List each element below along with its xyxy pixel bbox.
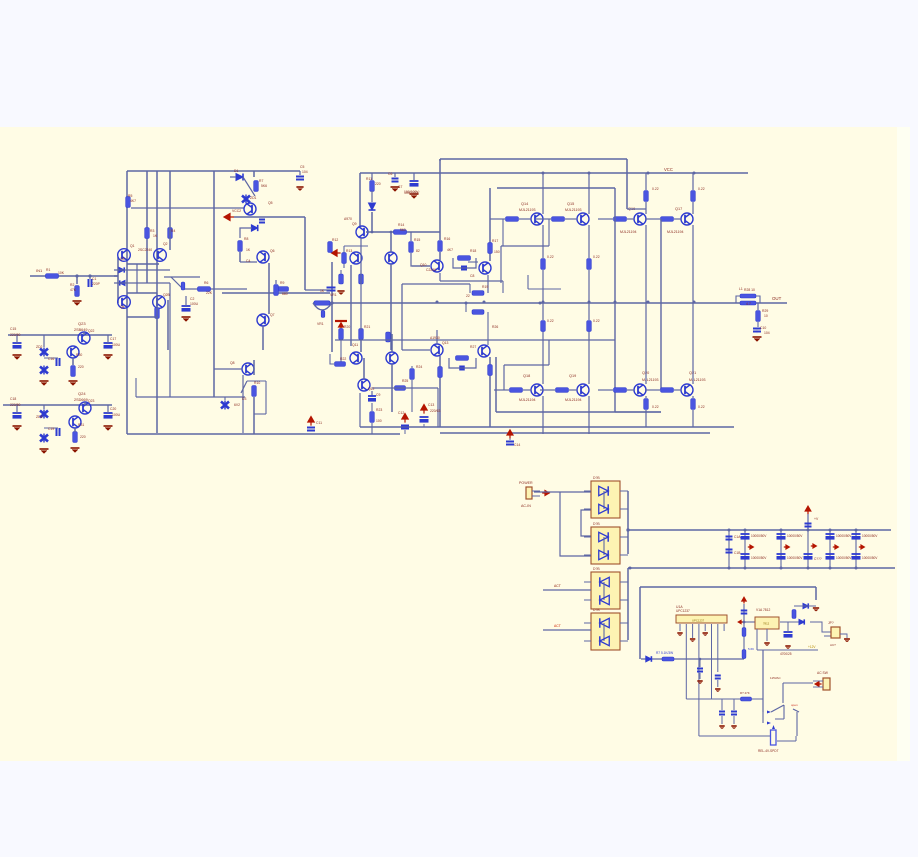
transistor Q11 [257,314,269,326]
svg-text:R24: R24 [416,365,422,369]
label amp108 C20 [110,407,116,411]
wire y246 piece [501,219,549,283]
wire Q29 emitter up [542,331,544,384]
wire lower drive rail link [495,357,497,412]
capacitor CB1b [726,550,733,553]
label amp96 C15 [10,327,16,331]
label amp31 Q8 [230,361,235,365]
svg-text:680: 680 [282,292,288,296]
wire bottom rail left [127,433,400,435]
wire Q27 emitter [645,225,647,302]
svg-text:220/63: 220/63 [430,409,440,413]
ground regA4 [104,355,113,360]
svg-text:VR1: VR1 [317,322,324,326]
svg-text:2SD669: 2SD669 [74,398,88,402]
label amp8 Q2 [163,242,168,246]
transistor Q9 vas top [244,203,256,215]
label JP2 [828,621,836,647]
capacitor CB3b [777,554,786,560]
ground C23 [697,673,702,684]
label amp22 ZD1 [250,196,257,200]
resistor R20 [370,403,375,434]
label amp34 6V2 [234,403,240,407]
svg-text:C9: C9 [376,393,380,397]
label amp53 4K7 [447,248,453,252]
label amp25 1K [246,248,251,252]
relay K1 coil pins [763,711,775,730]
label amp56 R18 [470,249,476,253]
svg-text:IN1: IN1 [36,268,43,273]
power arrow bl2 [402,414,408,423]
transistor Q16 bias2 [350,352,362,364]
diode D7 top [230,174,243,181]
ground regB4 [104,426,113,431]
label amp94 220/63 [430,409,440,413]
transistor Q8 regB [69,416,81,428]
svg-text:Q7: Q7 [270,313,275,317]
label amp14 C2 [190,297,194,301]
wire capcol 5 [829,530,831,568]
transistor Q29 output lower MJ21194 [531,384,543,396]
label amp112 R31 [78,423,84,427]
wire base feed 3 [598,218,634,220]
svg-text:0.22: 0.22 [593,319,600,323]
wire out tail [757,303,759,310]
label amp49 82 [416,249,420,253]
svg-text:5.6K: 5.6K [748,647,754,651]
label amp67 C9 [376,393,380,397]
svg-text:4K7: 4K7 [130,199,136,203]
svg-text:C18: C18 [10,397,16,401]
svg-text:R5: R5 [128,194,132,198]
wire Q30 collector [588,396,590,434]
svg-text:A1930: A1930 [430,336,440,340]
capacitor CB5a [826,534,835,540]
label amp98 ZD2 [36,345,43,349]
svg-text:R22: R22 [340,357,346,361]
wire diode branch [639,587,641,659]
capacitor C27 [731,699,737,715]
label amp48 R15 [414,238,420,242]
resistor R19 [330,354,346,366]
label CB1 [734,535,741,555]
label Q5 [74,321,88,332]
diode D1 cascode [114,267,170,272]
svg-text:R15: R15 [414,238,420,242]
wire drive rail lower [496,411,661,413]
svg-text:C1B: C1B [734,551,741,555]
wire vert mid [253,171,255,177]
diode D3 zener regA [40,335,48,357]
label amp111 220 [78,365,84,369]
label U2 [756,608,770,612]
resistor R36 [740,691,752,701]
svg-text:Q9: Q9 [352,222,357,226]
svg-text:220: 220 [80,435,86,439]
capacitor C22 p7 [715,676,721,679]
svg-text:D1: D1 [234,169,238,173]
transistor Q27 output upper NPN MJ21193 [634,213,646,225]
label amp62 VR1 [330,293,337,297]
wire vas vert1 [359,173,361,226]
bridge rectifier B3 [591,572,620,609]
resistor Re3 lower emitter [644,399,649,410]
resistor Rb4 upper base [661,217,674,222]
transistor Q20 drv2 [479,262,491,274]
wire lower base feed 2 [540,389,577,391]
svg-text:115VAC: 115VAC [770,676,782,680]
svg-text:10000/50V: 10000/50V [787,534,803,538]
label amp54 R17 [492,239,498,243]
svg-text:1K: 1K [153,234,158,238]
svg-text:VR1: VR1 [330,293,337,297]
capacitor C2 tail [182,296,191,312]
label amp43 A970 [344,217,352,221]
transistor Q4 diff [153,296,166,309]
svg-text:Q11: Q11 [352,343,358,347]
wire capcol 4 [807,530,809,568]
ground regA3 [69,381,78,386]
ground regB3 [71,448,80,453]
label amp116 Q2B [163,293,171,297]
transistor Q2 diff [154,249,167,262]
svg-text:R8: R8 [244,237,248,241]
capacitor C26 [719,699,725,715]
power arrow reg [742,597,746,603]
label amp28 R9 [280,281,284,285]
svg-text:5K6: 5K6 [261,184,267,188]
transistor Q7 regB [79,402,91,414]
wire bottom rail left2 [169,283,171,397]
label amp72 Q13 [442,341,449,345]
transistor Q25 output upper NPN MJ21193 [531,213,543,225]
wire reg rail A [8,334,112,336]
label amp2 R2 [70,283,74,287]
svg-text:10K: 10K [58,271,65,275]
svg-text:R17: R17 [492,239,498,243]
label ACT1 [554,584,561,588]
capacitor CB1a [726,537,733,540]
wire reg in [738,620,755,623]
wire p12 rail [757,629,818,650]
resistor R22 [410,366,415,412]
resistor R35 [792,610,796,619]
fuse F1 [805,524,812,527]
resistor R27 h [472,275,561,295]
inductor L1 parallel R [736,294,760,305]
label amp51 C2240 [426,268,436,272]
label amp92 C12 [398,411,404,415]
svg-text:AC-IN: AC-IN [521,504,531,508]
svg-text:R16: R16 [444,237,450,241]
transistor Q19 drv1 [431,260,443,272]
wire Q25 collector [542,173,544,258]
resistor R2 input shunt [75,286,80,297]
label amp41 100/100V [404,190,419,194]
resistor R26 [468,243,492,263]
wire Q28 collector [692,173,694,214]
resistor R17 [409,232,414,253]
label amp93 C13 [428,403,434,407]
svg-text:R11: R11 [366,177,372,181]
wire down from D9 [240,228,252,238]
label amp45 R13 [346,249,352,253]
wire p7 drop [717,631,719,672]
power arrow capcol 5 [833,545,839,549]
ground C22 [715,680,720,692]
wire drv2 [488,188,490,293]
svg-text:4K7: 4K7 [447,248,453,252]
svg-text:Q17: Q17 [675,207,682,211]
svg-text:4.7: 4.7 [746,302,751,306]
wire relay top [783,683,813,703]
svg-text:C6: C6 [388,172,392,176]
resistor R18b [339,329,364,340]
resistor R9 regB [73,428,78,443]
label Q27 [620,207,637,234]
svg-text:MJL21194: MJL21194 [620,230,637,234]
svg-text:10: 10 [764,314,768,318]
label amp84 L1 [739,287,743,291]
wire B1 stubs [584,491,628,509]
svg-text:JP?: JP? [828,621,834,625]
label CB2 [751,534,767,560]
wire out12 [810,622,831,636]
svg-text:0.22: 0.22 [698,405,705,409]
label amp105 ZD3 [36,415,43,419]
ground regA1 [13,355,22,360]
diode B1b [599,504,608,513]
label amp87 10 [764,314,768,318]
svg-text:Q6: Q6 [270,249,275,253]
label amp10 1K [153,234,158,238]
wire diff mid links [127,300,168,350]
capacitor CB2a [741,534,750,540]
wire vert left3 [156,171,158,433]
power arrow capcol 4 [811,544,817,548]
svg-text:C13: C13 [428,403,434,407]
transistor Q13 vas [356,226,368,238]
label amp89 104 [764,331,770,335]
wire B4 stubs [584,623,628,641]
label amp23 Q5 [268,201,273,205]
resistor R14 [370,173,375,192]
label ACT2 [554,624,561,628]
wire vas mid [366,231,440,233]
power arrow capcol 6 [859,545,865,549]
svg-text:Q18: Q18 [523,374,530,378]
wire r17 link [411,253,430,266]
svg-text:R23: R23 [376,408,382,412]
svg-text:C2: C2 [190,297,194,301]
svg-text:220: 220 [375,182,381,186]
contact K1 NO [793,709,799,736]
label amp83 0.22 [698,405,705,409]
label amp15 100U [190,302,199,306]
wire Q30 emitter up [588,331,590,384]
ground U1 p1 [677,633,682,636]
svg-text:D?B: D?B [593,476,600,480]
transistor Q32 output lower MJ21194 [681,384,693,396]
svg-text:C17: C17 [110,337,116,341]
resistor R11 [238,241,243,252]
capacitor C13 [368,396,376,402]
wire capcol 6 [855,530,857,568]
wire ac feed 1 [534,491,591,493]
svg-text:R9: R9 [280,281,284,285]
label amp16 R6 [204,281,208,285]
svg-text:7812: 7812 [763,622,770,626]
wire Q32 emitter up [692,302,694,384]
wire relay feed [762,650,764,712]
wire B2 stubs [584,537,628,555]
power arrow left rail [224,214,234,221]
wire top inner drop R [627,159,646,209]
label amp107 Q23 [88,399,95,403]
label amp1 10K [58,271,65,275]
svg-text:D3: D3 [242,397,246,401]
svg-text:C4: C4 [246,259,250,263]
label Q25 [519,202,536,212]
label amp17 22K [206,291,213,295]
capacitor CB6a [852,534,861,540]
wire vert left1 [126,171,128,434]
svg-text:0.22: 0.22 [698,187,705,191]
wire reg out [780,621,805,623]
svg-text:Q3: Q3 [120,257,125,261]
capacitor C15 [459,367,465,370]
diode D4 zener regA [40,366,48,375]
wire emitter drop [157,171,170,330]
trimmer RV1 [313,301,332,326]
label amp104 220/50 [10,403,20,407]
label CB6 [862,534,878,560]
svg-text:R30: R30 [76,353,82,357]
transistor Q15 mid [385,252,397,264]
wire p2 drop [685,631,687,699]
svg-text:C???: C??? [814,557,822,561]
ground U1 p5 [703,633,708,636]
wire Q32 collector [692,396,694,427]
diode D2 cascode [114,280,170,285]
svg-text:Q19: Q19 [569,374,576,378]
label CB3 [787,534,803,560]
capacitor C17 bus [756,330,758,333]
resistor R30 h [466,303,488,345]
label amp29 680 [282,292,288,296]
label amp18 D1 [234,169,238,173]
capacitor C11 top [392,173,399,182]
wire psu mid [640,586,816,588]
wire B34 out [627,568,629,640]
label amp68 R23 [376,408,382,412]
capacitor C7 regB [44,428,60,436]
wire Q26 collector [588,173,590,258]
resistor R25 pair [453,256,476,268]
ground regB1 [13,426,22,431]
wire bias box [344,246,368,268]
connector JP1 AC-IN [526,487,540,499]
svg-text:ZD3: ZD3 [36,415,43,419]
resistor R10 [254,181,259,192]
svg-text:ACT: ACT [554,584,561,588]
label amp75 R27 [470,345,476,349]
svg-text:2SC2240: 2SC2240 [138,248,152,252]
wire drive rail drop [614,188,616,412]
connector JP2 [831,627,850,642]
capacitor C23 [697,669,703,672]
node dots rails [371,172,746,661]
wire input shunt [76,276,78,284]
svg-text:AC SW: AC SW [817,671,829,675]
diode D12 sense [646,656,652,662]
svg-text:R19: R19 [482,285,488,289]
svg-text:R21: R21 [364,325,370,329]
svg-text:R4: R4 [171,229,175,233]
resistor R1 input series [46,274,59,279]
svg-text:100U: 100U [190,302,199,306]
capacitor C5 bus [296,171,304,191]
svg-text:A970: A970 [344,217,352,221]
label amp66 Q12 [368,387,375,391]
label Q26 [565,202,582,212]
resistor R29 [488,365,493,376]
svg-text:MJL21194: MJL21194 [667,230,684,234]
resistor R32 sense [656,651,674,661]
power arrow jp3 [813,681,823,687]
transistor Q14 bias [350,252,362,264]
capacitor C6 regB [13,405,22,419]
svg-text:100U: 100U [112,343,121,347]
wire U1 pin2 [685,624,687,631]
label B4 [593,608,600,612]
svg-text:0.22: 0.22 [652,187,659,191]
resistor R24 [438,241,443,252]
svg-text:Q2: Q2 [163,242,168,246]
wire ldrv [372,330,442,427]
ground c11 [391,187,400,192]
wire drive drop lower [660,219,662,390]
ground tail [182,317,191,322]
svg-text:R18: R18 [470,249,476,253]
svg-text:104: 104 [764,331,770,335]
svg-text:Q2B: Q2B [163,293,171,297]
svg-text:VCC: VCC [664,167,673,172]
wire Q28 emitter [692,225,694,302]
svg-text:R31: R31 [78,423,84,427]
bridge rectifier B4 [591,613,620,650]
svg-text:L1: L1 [739,287,743,291]
svg-text:R7 5.1K/3W: R7 5.1K/3W [656,651,673,655]
transistor Q18 midlow [386,352,398,364]
ground U1 p3 [690,631,695,642]
svg-text:ZD2: ZD2 [36,345,43,349]
diode D14 [799,619,804,624]
svg-text:10000/50V: 10000/50V [751,534,767,538]
capacitor C3 regA [13,335,22,349]
svg-text:220: 220 [78,365,84,369]
power arrow bl3 [421,405,427,414]
svg-text:R1: R1 [46,268,50,272]
resistor R37 coil [771,730,777,745]
resistor Re1 lower emitter [541,321,546,332]
resistor R31 zobel [756,311,761,322]
label amp109 100U [112,413,121,417]
power arrow ac [542,491,549,496]
capacitor C20 ecap [420,417,441,427]
svg-text:10000/50V: 10000/50V [787,556,803,560]
capacitor C16 zobel [753,322,761,332]
